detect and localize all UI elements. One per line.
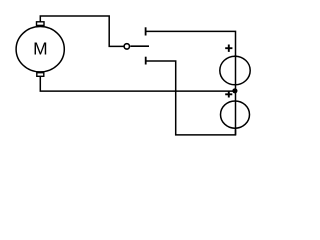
motor bottom terminal xyxy=(37,73,44,77)
switch S1 lower contact tick xyxy=(145,57,147,65)
motor top terminal xyxy=(37,22,45,26)
plus polarity label of cell B1 xyxy=(225,45,232,52)
cell B2 electrode line xyxy=(235,91,237,135)
cell B1 electrode line xyxy=(235,55,237,91)
switch S1 pole pivot xyxy=(124,44,129,49)
motor M1 body xyxy=(16,27,64,72)
wire from upper contact to battery B1 positive terminal xyxy=(146,31,236,56)
wire from motor top terminal to switch pole xyxy=(40,16,124,46)
cell B2 body xyxy=(221,101,250,128)
switch S1 upper contact tick xyxy=(145,27,147,35)
plus polarity label of cell B2 xyxy=(225,91,232,97)
wire from motor bottom terminal to battery junction node xyxy=(40,76,235,91)
cell B1 body xyxy=(220,56,250,85)
switch S1 blade xyxy=(130,45,149,47)
junction node between B1 and B2 xyxy=(232,88,237,93)
svg-text:M: M xyxy=(33,39,48,59)
wire from lower contact down and to battery B2 negative terminal xyxy=(146,61,236,135)
